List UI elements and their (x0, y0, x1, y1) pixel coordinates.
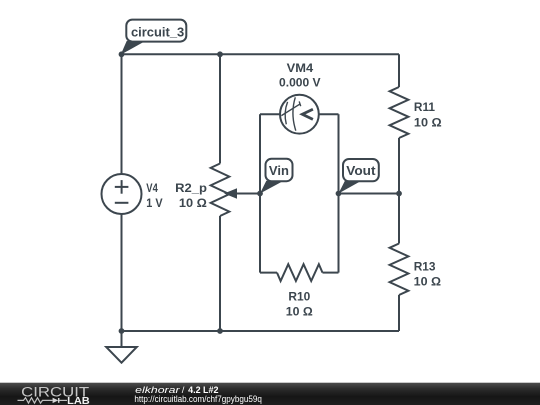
svg-text:LAB: LAB (67, 395, 90, 405)
resistor R13 (398, 194, 400, 244)
resistor R2_p (219, 54, 221, 163)
wire top rail (122, 53, 400, 55)
node junction right (396, 191, 402, 197)
node label Vout (343, 159, 379, 181)
wire wiper to Vin node (234, 193, 260, 195)
svg-text:10 Ω: 10 Ω (414, 116, 442, 130)
wire bottom rail (122, 330, 400, 332)
svg-text:http://circuitlab.com/chf7gpyb: http://circuitlab.com/chf7gpybgu59q (134, 394, 262, 405)
flag tail Vout (339, 181, 361, 194)
svg-text:1 V: 1 V (146, 196, 162, 210)
resistor R11 (398, 54, 400, 87)
node label Vin (266, 159, 293, 181)
flag tail circuit_3 (121, 41, 145, 55)
node junction top R2_p (217, 51, 223, 57)
wire left rail lower (121, 214, 123, 331)
wire Vout branch (338, 114, 340, 193)
svg-text:R11: R11 (414, 100, 435, 114)
voltage source V4 (102, 174, 142, 214)
svg-text:V4: V4 (146, 181, 158, 195)
svg-text:10 Ω: 10 Ω (286, 305, 313, 319)
node junction bottom-left (119, 328, 125, 334)
ground (121, 331, 123, 347)
voltmeter VM4 (280, 95, 319, 134)
node junction bottom R2_p (217, 328, 223, 334)
logo diode (53, 398, 59, 403)
svg-text:circuit_3: circuit_3 (131, 24, 184, 39)
voltmeter VM4 inner gauge (285, 102, 287, 124)
svg-text:R2_p: R2_p (175, 181, 207, 195)
wire Vout to R nodes (339, 193, 400, 195)
node label circuit_3 (126, 20, 186, 42)
resistor R10 (259, 194, 261, 273)
flag tail Vin (260, 181, 283, 194)
svg-text:Vout: Vout (346, 163, 376, 178)
svg-text:Vin: Vin (269, 163, 289, 178)
wire left rail upper (121, 54, 123, 174)
node Vout junction (336, 191, 342, 197)
svg-text:R13: R13 (414, 259, 436, 273)
svg-text:10 Ω: 10 Ω (179, 196, 207, 210)
logo schematic squiggle (18, 398, 68, 403)
wiper arrow of R2_p (224, 188, 237, 199)
node junction top-left (119, 51, 125, 57)
node Vin junction (257, 191, 263, 197)
svg-text:0.000 V: 0.000 V (279, 75, 321, 89)
svg-text:10 Ω: 10 Ω (414, 275, 442, 289)
svg-text:VM4: VM4 (287, 61, 314, 75)
svg-text:R10: R10 (288, 289, 310, 303)
wire Vin branch (259, 114, 261, 193)
